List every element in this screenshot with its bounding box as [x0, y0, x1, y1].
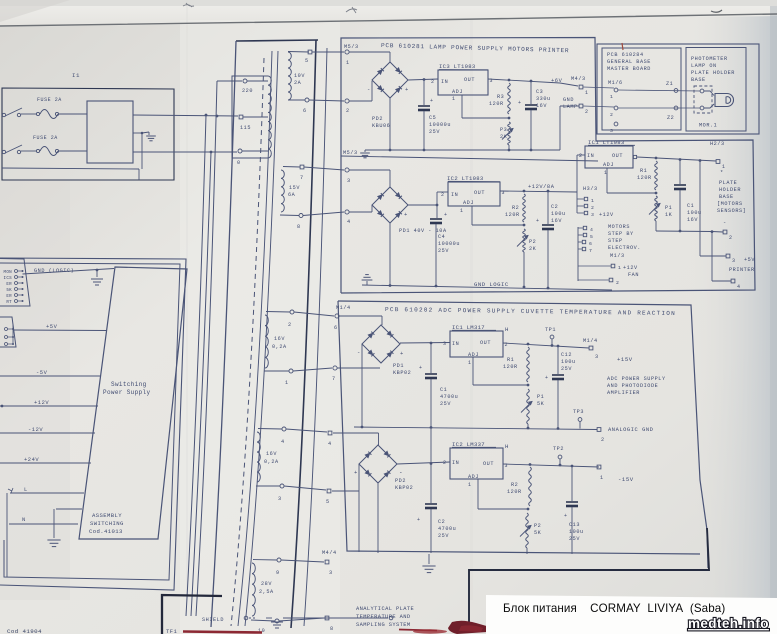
svg-text:2: 2 — [601, 437, 605, 443]
wire W1 pin5 to M5/3 pin1 — [312, 51, 344, 53]
wire pin7 to bridge ADC PD1 — [337, 367, 380, 369]
svg-text:4700u: 4700u — [440, 394, 458, 400]
wire W3 pin1 to M1/4 pin7 — [293, 368, 332, 371]
svg-text:3: 3 — [329, 570, 333, 576]
svg-text:Z2: Z2 — [667, 115, 674, 121]
junction dot gnd logic — [96, 269, 99, 272]
wire +12V — [1, 405, 4, 408]
svg-text:PHOTOMETER: PHOTOMETER — [691, 56, 728, 62]
secondary winding W1 10V 2A — [288, 51, 309, 54]
motor pin 4 — [583, 226, 586, 229]
photometer lamp symbol — [715, 94, 734, 107]
svg-text:3: 3 — [443, 341, 447, 347]
svg-text:8: 8 — [297, 224, 301, 230]
svg-text:25V: 25V — [561, 366, 572, 372]
ground rail lamp section — [365, 149, 540, 151]
+5V connector box — [0, 317, 16, 347]
wire filter to 0 tap — [133, 151, 237, 153]
svg-text:2: 2 — [616, 280, 619, 286]
white caption bar — [486, 595, 777, 634]
svg-text:1: 1 — [618, 265, 621, 271]
secondary bus S2 — [245, 51, 278, 626]
svg-text:TF1: TF1 — [166, 629, 177, 634]
wire to M1/3 pin2 — [578, 279, 609, 281]
svg-text:FUSE 2A: FUSE 2A — [33, 135, 58, 141]
svg-text:1: 1 — [591, 198, 594, 204]
wire W5 pin10 to M4/4 pin8 — [279, 618, 324, 621]
svg-text:+: + — [536, 218, 540, 224]
svg-text:120R: 120R — [637, 175, 652, 181]
bus line V3 down from 220 tap — [196, 81, 217, 616]
wire IC3 ADJ down — [461, 95, 463, 118]
svg-text:C2: C2 — [438, 519, 445, 525]
junction dot ADJ node 2 — [523, 224, 526, 227]
regulator IC3 LT1083 — [438, 70, 488, 95]
wire W5 pin9 to M4/4 pin3 — [281, 560, 324, 562]
svg-text:2K: 2K — [529, 246, 537, 252]
junction dot R1 top adc — [527, 343, 530, 346]
svg-text:AMPLIFIER: AMPLIFIER — [607, 390, 640, 396]
svg-text:BASE: BASE — [719, 194, 734, 200]
switch S1 (line) — [2, 113, 5, 116]
svg-text:ADJ: ADJ — [452, 89, 463, 95]
red underline bottom-left — [183, 632, 262, 633]
transformer core dashed line — [231, 58, 264, 626]
svg-text:P1: P1 — [665, 205, 672, 211]
svg-text:+: + — [400, 350, 404, 357]
svg-text:+15V: +15V — [617, 356, 633, 363]
wire printer pin4 — [711, 232, 713, 282]
svg-text:M1/4: M1/4 — [583, 338, 598, 344]
svg-text:+12V/8A: +12V/8A — [528, 184, 555, 190]
svg-text:LAMP ON: LAMP ON — [691, 63, 717, 69]
svg-text:Cod 41904: Cod 41904 — [7, 628, 42, 634]
svg-text:5: 5 — [326, 499, 330, 505]
svg-text:4: 4 — [737, 284, 741, 290]
junction dot R2 top adc — [529, 463, 532, 466]
svg-text:IN: IN — [452, 341, 459, 347]
M5/3 pin 2 — [345, 99, 349, 103]
wire IC1 OUT to H2/3 pin1 — [637, 157, 716, 161]
svg-text:2: 2 — [579, 153, 583, 159]
svg-text:OUT: OUT — [480, 340, 491, 346]
svg-text:M1/3: M1/3 — [610, 253, 625, 259]
svg-text:IN: IN — [441, 79, 448, 85]
svg-text:HOLDER: HOLDER — [719, 187, 741, 193]
svg-text:KBP02: KBP02 — [393, 370, 411, 376]
wire IC2 OUT +12V rail — [500, 191, 577, 192]
transformer TF1 outer box — [236, 40, 318, 41]
svg-text:C1: C1 — [440, 387, 447, 393]
M1/4 pin 6 — [335, 314, 339, 318]
svg-text:M4/4: M4/4 — [322, 550, 337, 556]
wire W4 pin3 to M1/4 pin5 — [284, 486, 326, 490]
svg-text:5: 5 — [590, 234, 593, 240]
wire P1 bottom to gnd rail — [655, 221, 657, 231]
wire +12V rail to IC1 IN — [576, 155, 578, 192]
svg-text:Power Supply: Power Supply — [103, 389, 150, 396]
pin 1 -15V — [597, 465, 601, 469]
svg-text:GND LOGIC: GND LOGIC — [474, 281, 509, 288]
svg-text:medteh.info: medteh.info — [688, 616, 769, 631]
svg-text:2: 2 — [431, 79, 435, 85]
wire IC1 OUT +15V rail — [503, 343, 589, 348]
ground mains filter — [133, 132, 142, 134]
svg-text:SWITCHING: SWITCHING — [90, 520, 124, 527]
svg-text:16V: 16V — [536, 103, 547, 109]
capacitor C1 100u 16V — [679, 160, 681, 185]
svg-text:2: 2 — [585, 109, 589, 115]
svg-text:100u: 100u — [687, 210, 702, 216]
svg-text:SAMPLING SYSTEM: SAMPLING SYSTEM — [356, 622, 411, 628]
H3/3 pin 3 — [584, 211, 587, 214]
shield terminal — [244, 616, 248, 620]
wire L — [10, 492, 84, 494]
svg-text:M5/3: M5/3 — [344, 44, 359, 50]
wire socket to lamp lower — [704, 104, 714, 108]
svg-text:100u: 100u — [551, 211, 566, 217]
M1/4 pin 7 — [333, 366, 337, 370]
PCB 610284 inner box — [602, 48, 681, 130]
capacitor C5 10000u 25V — [423, 80, 425, 106]
ground at M5/3 lower — [364, 150, 366, 152]
wire IC1 ADJ down — [472, 357, 474, 385]
M1/4 pin 5 — [327, 489, 331, 493]
red smudge mid — [413, 629, 447, 633]
M5/3 pin 1 — [345, 50, 349, 54]
svg-text:RT: RT — [6, 301, 12, 305]
svg-text:KBP02: KBP02 — [395, 485, 413, 491]
svg-text:100u: 100u — [561, 359, 576, 365]
junction dots logic ground rail — [389, 284, 392, 287]
svg-text:6: 6 — [334, 325, 338, 331]
EMI filter box — [87, 101, 133, 163]
primary terminal 220 — [243, 79, 247, 83]
svg-text:5K: 5K — [534, 530, 542, 536]
svg-text:ADJ: ADJ — [603, 162, 614, 168]
svg-text:FAN: FAN — [628, 272, 639, 278]
PE ground — [53, 509, 55, 538]
capacitor C12 100u 25V — [557, 346, 559, 374]
left section outer box — [0, 258, 186, 590]
junction dots analog gnd — [361, 426, 364, 429]
PCB 610202 box outline — [338, 301, 708, 568]
svg-text:-5V: -5V — [36, 370, 48, 376]
secondary winding W4 16V 0,2A — [258, 428, 282, 431]
junction dot C1 adc — [430, 342, 433, 345]
wire pin5 to bridge left — [332, 490, 359, 492]
svg-text:ER: ER — [6, 295, 12, 299]
svg-text:4: 4 — [328, 441, 332, 447]
svg-text:0: 0 — [237, 160, 241, 166]
svg-text:9: 9 — [276, 570, 280, 576]
svg-text:SHIELD: SHIELD — [202, 617, 224, 623]
svg-text:1K: 1K — [665, 212, 673, 218]
H3/3 pin 1 — [584, 197, 587, 200]
svg-text:3: 3 — [610, 128, 613, 134]
svg-text:+12V: +12V — [599, 212, 614, 218]
wire +24V — [0, 462, 91, 464]
svg-text:ASSEMBLY: ASSEMBLY — [92, 512, 122, 519]
junction dot TP1 — [551, 344, 554, 347]
secondary bus S1 — [238, 51, 272, 626]
left section inner box — [0, 263, 180, 580]
motor pin 5 — [583, 233, 586, 236]
svg-text:1: 1 — [285, 380, 289, 386]
wire pin1 to Z1 — [618, 90, 700, 91]
wire bridge out to IC1 IN — [400, 342, 450, 345]
vertical left bus lower adc — [358, 464, 360, 552]
wire W2 pin8 to M5/3 pin4 — [303, 212, 344, 216]
svg-text:C5: C5 — [429, 115, 436, 121]
svg-text:M1/6: M1/6 — [608, 80, 623, 86]
bus line V2 down from neutral — [191, 152, 211, 616]
svg-text:Cod.41013: Cod.41013 — [89, 528, 123, 535]
wire pin6 to bridge ADC PD1 — [339, 315, 382, 317]
svg-text:OUT: OUT — [612, 153, 623, 159]
svg-text:0,2A: 0,2A — [264, 459, 279, 465]
switching power supply box — [79, 267, 187, 539]
svg-text:GND: GND — [563, 97, 574, 103]
svg-text:25V: 25V — [429, 129, 440, 135]
wire rail to H2/3 pin2 — [712, 231, 723, 234]
svg-text:IC3 LT1083: IC3 LT1083 — [439, 63, 476, 70]
wire P1 bottom to analog gnd — [527, 424, 529, 428]
L N connector box left edge — [6, 493, 8, 577]
svg-text:7: 7 — [589, 248, 592, 254]
IC1 OUT pin — [633, 155, 636, 158]
wire +5V — [13, 329, 107, 332]
junction dot on neutral wire — [210, 151, 213, 154]
ground rail logic — [362, 285, 612, 290]
svg-text:ADJ: ADJ — [468, 474, 479, 480]
svg-text:PLATE: PLATE — [719, 180, 737, 186]
secondary bus S3 — [304, 48, 327, 626]
potentiometer P1 1K — [655, 196, 658, 221]
M1/6 pin 1 — [614, 88, 618, 92]
bridge rectifier PD1 40V-10A — [372, 187, 408, 223]
svg-text:+: + — [444, 212, 448, 218]
+5V pins — [5, 328, 8, 331]
wire PD2 out to IC3 IN — [408, 79, 438, 80]
svg-text:6A: 6A — [288, 192, 296, 198]
wire filter to 115 tap — [133, 115, 238, 116]
svg-text:10000u: 10000u — [438, 241, 460, 247]
svg-text:+: + — [354, 469, 358, 476]
regulator IC2 LT1083 — [448, 182, 500, 206]
dark corner line bottom-left — [162, 595, 222, 634]
logic connector box — [0, 259, 30, 307]
svg-text:220: 220 — [242, 88, 253, 94]
svg-text:3: 3 — [278, 496, 282, 502]
master board outer box — [597, 44, 759, 134]
svg-text:ADJ: ADJ — [463, 200, 474, 206]
lamp socket contact 1 — [700, 89, 704, 93]
junction dot C4 — [436, 204, 439, 207]
wire -5V — [0, 375, 101, 377]
capacitor C1 4700u 25V — [430, 343, 432, 373]
svg-text:7: 7 — [332, 376, 336, 382]
wire F1 to filter — [59, 113, 87, 115]
wire pin4 to bridge ADC PD2 — [333, 432, 379, 434]
wire M5/3 pin2 to bridge PD2 — [349, 100, 372, 102]
svg-text:PD2: PD2 — [372, 116, 383, 122]
svg-text:3: 3 — [732, 258, 736, 264]
wire GND LAMP down to rail — [560, 105, 579, 107]
svg-text:IN: IN — [452, 460, 459, 466]
wire P3 to ground rail — [508, 145, 510, 150]
svg-text:-: - — [367, 86, 371, 93]
svg-text:4: 4 — [590, 227, 593, 233]
potentiometer P2 2K — [523, 229, 526, 252]
svg-text:2K: 2K — [500, 134, 508, 140]
wire F2 to filter — [59, 150, 87, 152]
red tick mark — [622, 43, 623, 50]
svg-text:+5V: +5V — [744, 257, 755, 263]
M4/3 pin 2 GND — [579, 104, 583, 108]
regulator IC1 LT1083 — [585, 146, 633, 168]
svg-text:MON: MON — [4, 271, 13, 275]
wire IN bus to H3/3 pins — [576, 192, 578, 213]
svg-text:330u: 330u — [536, 96, 551, 102]
analog ground rail — [354, 427, 597, 430]
svg-text:Z1: Z1 — [666, 81, 673, 87]
wire IC2 OUT -15V rail — [503, 464, 599, 467]
svg-text:H2/3: H2/3 — [710, 141, 725, 147]
wire switch to fuse F2 — [21, 150, 36, 152]
svg-text:Switching: Switching — [111, 381, 147, 388]
svg-text:120R: 120R — [505, 212, 520, 218]
svg-text:M4/3: M4/3 — [571, 76, 586, 82]
svg-text:+6V: +6V — [551, 78, 563, 84]
svg-text:PRINTER: PRINTER — [729, 267, 755, 273]
junction dot TP2 — [559, 464, 562, 467]
svg-text:LAMP: LAMP — [563, 104, 578, 110]
junction dot R2 top — [523, 190, 526, 193]
wire W4 pin4 to M1/4 pin4 — [286, 429, 327, 432]
motor pin 7 — [582, 247, 585, 250]
junction dot ADJ node — [508, 117, 511, 120]
primary coil — [268, 76, 271, 158]
svg-text:120R: 120R — [503, 364, 518, 370]
junction dot C3 top — [530, 80, 533, 83]
svg-text:10V: 10V — [294, 73, 305, 79]
bus line V1 down from live — [186, 115, 206, 616]
M5/3 pin 3 — [345, 168, 349, 172]
M5/3 pin 4 — [345, 210, 349, 214]
wire bridge bottom to rail — [377, 484, 379, 554]
svg-text:ANALOGIC GND: ANALOGIC GND — [608, 427, 653, 433]
resistor R1 120R — [655, 161, 658, 190]
svg-text:16V: 16V — [687, 217, 698, 223]
resistor R1 120R adc — [527, 347, 530, 382]
ground symbol logic — [366, 281, 368, 285]
M1/3 pin 1 — [611, 264, 615, 268]
M1/3 pin 2 — [609, 278, 613, 282]
svg-text:GENERAL BASE: GENERAL BASE — [607, 59, 651, 65]
switch S2 (neutral) — [2, 150, 5, 153]
primary terminal 115 — [239, 115, 243, 119]
PCB 610281 box outline — [341, 38, 755, 294]
svg-text:[MOTORS: [MOTORS — [717, 201, 743, 207]
svg-text:16V: 16V — [274, 336, 285, 342]
wire W3 pin2 to M1/4 pin6 — [294, 312, 334, 316]
svg-text:+: + — [405, 86, 409, 93]
svg-text:1: 1 — [452, 96, 456, 102]
wire bridge minus to analog gnd — [361, 344, 363, 427]
svg-text:KBU06: KBU06 — [372, 123, 390, 129]
junction dot R3 top — [508, 79, 511, 82]
wire PD1 bottom to rail — [389, 223, 391, 286]
junction dot C2 top — [547, 190, 550, 193]
node Z2 — [674, 106, 678, 110]
scribble mark top-left — [183, 3, 194, 7]
svg-text:8: 8 — [330, 626, 334, 632]
dark annotation line — [469, 528, 709, 628]
wire M5/3 pin1 to bridge PD2 — [349, 51, 390, 53]
svg-text:ICS: ICS — [4, 277, 13, 281]
wire W2 pin7 to M5/3 pin3 — [304, 167, 344, 170]
scribble mark top-middle — [346, 7, 357, 13]
svg-text:C4: C4 — [438, 234, 445, 240]
svg-text:ADC POWER SUPPLY: ADC POWER SUPPLY — [607, 376, 666, 382]
svg-text:2: 2 — [288, 322, 292, 328]
svg-text:TP1: TP1 — [545, 327, 556, 333]
svg-text:-: - — [357, 349, 361, 356]
junction dot C12 top — [557, 345, 560, 348]
svg-text:MASTER BOARD: MASTER BOARD — [607, 66, 651, 72]
svg-text:P2: P2 — [534, 523, 541, 529]
wire IC2 ADJ down — [471, 206, 473, 225]
svg-text:100u: 100u — [569, 529, 584, 535]
svg-text:3: 3 — [591, 212, 594, 218]
svg-text:P2: P2 — [529, 239, 536, 245]
junction dot C5 — [423, 78, 426, 81]
potentiometer P2 5K — [526, 513, 529, 548]
svg-text:OUT: OUT — [483, 461, 494, 467]
wire N — [9, 523, 78, 525]
svg-text:IN: IN — [587, 153, 594, 159]
wire IC3 OUT to +6V — [488, 79, 560, 83]
wire socket to lamp upper — [704, 91, 714, 96]
svg-text:+5V: +5V — [46, 324, 58, 330]
shield wire — [249, 617, 256, 619]
wire M5/3 pin3 to bridge PD1 — [349, 169, 390, 171]
wire to M1/3 pin1 — [578, 265, 611, 267]
svg-text:+: + — [518, 100, 522, 106]
M4/4 pin 8 — [325, 616, 329, 620]
fuse F2 — [36, 149, 39, 152]
svg-text:120R: 120R — [507, 489, 522, 495]
lamp socket contact 2 — [700, 106, 704, 110]
tick marks L — [8, 488, 13, 493]
svg-text:25V: 25V — [438, 248, 449, 254]
M4/4 pin 3 — [325, 560, 329, 564]
svg-text:ANALYTICAL PLATE: ANALYTICAL PLATE — [356, 606, 414, 612]
svg-text:2A: 2A — [294, 80, 302, 86]
PCB 610202 title — [385, 306, 676, 317]
svg-text:AND PHOTODIODE: AND PHOTODIODE — [607, 383, 658, 389]
mains section inner step line — [2, 168, 139, 169]
svg-text:-15V: -15V — [618, 476, 634, 483]
svg-text:P1: P1 — [537, 394, 544, 400]
H2/3 pin 4 — [731, 279, 735, 283]
svg-text:PLATE HOLDER: PLATE HOLDER — [691, 70, 735, 76]
svg-text:MOR.1: MOR.1 — [699, 123, 717, 129]
capacitor C4 10000u 25V — [436, 205, 438, 218]
svg-text:SENSORS]: SENSORS] — [717, 208, 746, 214]
svg-text:OUT: OUT — [464, 77, 475, 83]
